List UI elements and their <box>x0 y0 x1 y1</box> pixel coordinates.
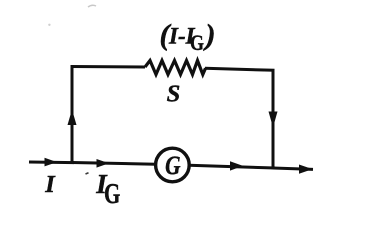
wire: top-left horizontal segment from corner to resistor <box>71 65 146 69</box>
scan speck dash near I_G <box>86 173 89 174</box>
svg-text:G: G <box>165 152 180 180</box>
arrowhead: downward arrow on right vertical branch <box>269 112 278 128</box>
wire: right vertical branch from top-right corner down to node B <box>272 70 275 170</box>
scan speck top-left <box>88 5 96 7</box>
arrowhead: I_G current arrow between node A and galvanometer <box>97 159 110 168</box>
svg-text:S: S <box>167 81 181 108</box>
label: current I on input lead <box>44 171 56 198</box>
svg-text:G: G <box>104 179 120 210</box>
arrowhead: output current arrow at right end <box>299 165 313 174</box>
label: current I_G through galvanometer <box>95 169 120 210</box>
svg-text:I: I <box>44 171 56 198</box>
galvanometer G (circle) <box>156 148 190 182</box>
scan speck dot <box>48 24 50 26</box>
svg-text:): ) <box>203 18 216 51</box>
wire: bottom segment node A to galvanometer left terminal <box>72 163 156 165</box>
svg-text:G: G <box>190 31 204 55</box>
label: shunt current (I-I_G) above resistor <box>160 18 216 55</box>
wire: top-right horizontal segment from resistor to corner <box>205 68 275 70</box>
wire: bottom input lead from left edge to node A <box>29 161 74 165</box>
wire: galvanometer right terminal to node B <box>189 165 275 168</box>
wire: bottom output lead from node B to right end <box>273 168 313 169</box>
arrowhead: input current arrow on left lead <box>45 158 58 167</box>
wire: left vertical branch from node A up to top-left corner <box>71 65 74 163</box>
resistor S (zigzag) <box>145 61 206 75</box>
arrowhead: current arrow between galvanometer and node B <box>230 161 243 170</box>
label: resistor value S <box>167 81 181 108</box>
arrowhead: upward arrow on left vertical branch <box>68 110 77 126</box>
